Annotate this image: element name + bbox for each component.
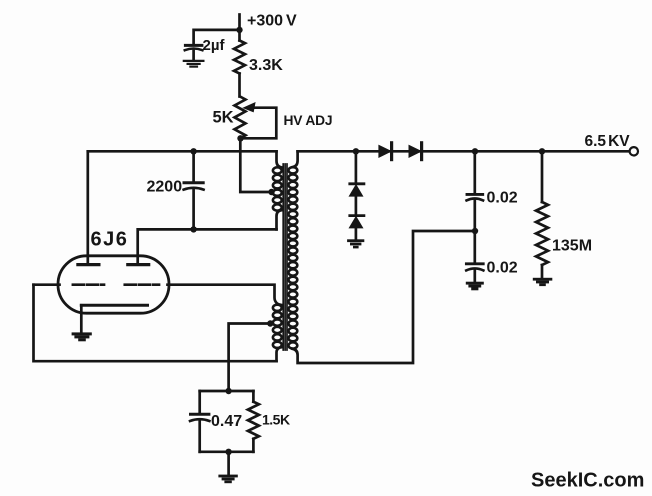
capacitor C4 0.02 lower bbox=[466, 231, 483, 281]
wire P1 bottom lead bbox=[277, 210, 282, 229]
capacitor C2 2200 bbox=[184, 151, 204, 229]
wire S top lead bbox=[293, 151, 298, 167]
wire P2 tap to C5/R4 bbox=[229, 324, 271, 392]
ground for C5/R4 bbox=[218, 475, 237, 484]
capacitor C5 0.47 bbox=[190, 391, 209, 452]
svg-text:135M: 135M bbox=[552, 238, 592, 255]
svg-text:6.5KV: 6.5KV bbox=[585, 133, 631, 150]
diode CR3 bbox=[350, 184, 364, 216]
svg-text:0.47: 0.47 bbox=[211, 413, 242, 430]
transformer T1 core bbox=[283, 164, 287, 350]
wire cathode to ground bbox=[80, 305, 83, 331]
ground for C4 bbox=[466, 282, 484, 291]
node tap of primary P2 dot bbox=[267, 320, 273, 326]
wire left plate lead bbox=[86, 151, 89, 264]
capacitor C3 0.02 upper bbox=[467, 151, 484, 231]
wire right plate wire bbox=[138, 229, 277, 264]
secondary S winding bbox=[289, 167, 298, 348]
wire C5/R4 top rail bbox=[200, 390, 254, 393]
wire R1 to R2 bbox=[238, 74, 241, 97]
wire HV ADJ feedback loop bbox=[241, 108, 277, 139]
primary P1 winding bbox=[273, 167, 282, 210]
node between caps junction dot bbox=[472, 228, 478, 234]
node C3 top junction dot bbox=[472, 148, 478, 154]
wire to bottom ground bbox=[227, 452, 230, 475]
node pot bottom junction dot bbox=[237, 135, 243, 141]
tube V1 6J6 envelope bbox=[58, 256, 169, 313]
diode CR1 bbox=[379, 143, 391, 160]
node C5/R4 bottom junction dot bbox=[225, 449, 231, 455]
wire P2 bottom lead bbox=[277, 347, 282, 361]
wire B+ supply lead bbox=[238, 15, 241, 41]
svg-text:5K: 5K bbox=[213, 109, 234, 127]
terminal 6.5KV output circle bbox=[630, 147, 638, 155]
ground for cathode bbox=[72, 332, 92, 341]
node tap of primary P1 dot bbox=[268, 189, 274, 195]
ground for C1 bbox=[184, 61, 204, 67]
capacitor C1 2uf bbox=[185, 45, 203, 59]
wire diode chain vertical bbox=[355, 151, 358, 183]
wire plate rail bbox=[88, 150, 277, 153]
diode CR2 bbox=[409, 143, 421, 160]
primary P2 winding bbox=[273, 305, 282, 348]
wire B+ to C1 bbox=[194, 30, 240, 44]
diode CR4 bbox=[350, 216, 364, 239]
node diode chain junction dot bbox=[353, 148, 359, 154]
resistor R1 3.3K bbox=[234, 41, 245, 74]
svg-text:SeekIC.com: SeekIC.com bbox=[531, 470, 644, 492]
svg-text:0.02: 0.02 bbox=[487, 190, 518, 207]
wire S bottom lead to 0.02 junction bbox=[293, 231, 475, 363]
wire pot bottom down to tap bbox=[240, 138, 271, 192]
svg-text:2µf: 2µf bbox=[203, 37, 226, 54]
svg-text:HV ADJ: HV ADJ bbox=[284, 113, 333, 128]
node C2 top junction dot bbox=[190, 148, 196, 154]
wire P1 top lead bbox=[277, 151, 282, 167]
wire R3 top lead bbox=[541, 151, 544, 202]
ground for R3 bbox=[533, 278, 553, 286]
node C5/R4 top junction dot bbox=[225, 388, 231, 394]
ground for diode chain bbox=[347, 239, 364, 248]
wire R3 bottom lead bbox=[541, 265, 544, 278]
wire grid right to P2 bbox=[168, 285, 282, 305]
svg-text:+300V: +300V bbox=[247, 13, 297, 30]
node C2 bottom junction dot bbox=[190, 226, 196, 232]
cathode of V1 bbox=[81, 304, 147, 307]
wire HV rail bbox=[298, 150, 630, 153]
potentiometer R2 5K bbox=[235, 97, 246, 139]
wire grid left bbox=[34, 283, 60, 286]
resistor R3 135M bbox=[536, 202, 548, 265]
svg-text:2200: 2200 bbox=[147, 179, 183, 196]
plate bars of V1 bbox=[78, 263, 149, 266]
svg-text:3.3K: 3.3K bbox=[249, 57, 283, 74]
wire grid-left vertical and bottom return bbox=[34, 285, 277, 362]
grid dashed line of V1 bbox=[73, 283, 159, 286]
node R3 top junction dot bbox=[539, 148, 545, 154]
svg-text:6J6: 6J6 bbox=[91, 229, 129, 251]
resistor R4 1.5K bbox=[248, 391, 259, 452]
svg-text:0.02: 0.02 bbox=[487, 260, 518, 277]
wiper arrow of R2 bbox=[244, 103, 255, 112]
wire C5/R4 bottom rail bbox=[200, 450, 254, 453]
node B+ junction dot bbox=[236, 27, 242, 33]
svg-text:1.5K: 1.5K bbox=[262, 412, 290, 428]
